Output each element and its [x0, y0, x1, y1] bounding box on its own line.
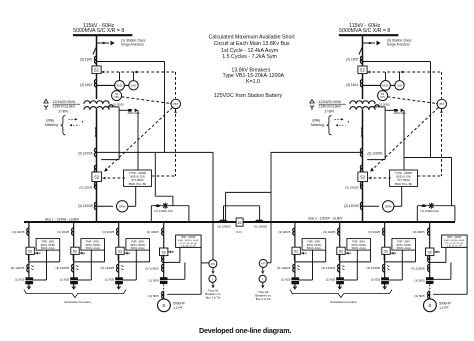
svg-text:50GS, Amps: 50GS, Amps — [397, 247, 412, 250]
motor CT (3) 1200/5 — [428, 264, 430, 268]
svg-text:FPS: FPS — [114, 97, 119, 99]
motor relay box MPR-SR469 — [442, 235, 468, 247]
wire: CT1605 secondary run R — [363, 61, 431, 63]
svg-text:1.2 PF: 1.2 PF — [173, 306, 182, 310]
feeder vertical at x=73.7 — [73, 222, 75, 288]
motor CT below breaker — [162, 255, 164, 259]
transformer wye symbol R — [311, 107, 313, 110]
CT below 52 secondary L — [94, 182, 96, 186]
bus 2 13.8kV — [243, 221, 455, 223]
relay 50/51 L — [115, 81, 125, 91]
wire: feeder relay trip (dashed) — [80, 252, 86, 254]
svg-text:(3) 1605: (3) 1605 — [80, 58, 92, 62]
CT (1) 2000 neutral R — [373, 106, 386, 108]
wire: feeder CT circuit — [29, 261, 60, 263]
wire: 63FP to 86T L (dashed) — [122, 97, 170, 104]
svg-text:50GS, Amps: 50GS, Amps — [131, 247, 146, 250]
svg-text:Bus 2 & Tie: Bus 2 & Tie — [256, 297, 271, 301]
svg-text:1.5 Cycles - 7.2kA Sym: 1.5 Cycles - 7.2kA Sym — [222, 54, 277, 60]
lockout 86B bus2 — [259, 275, 266, 282]
svg-text:52: 52 — [94, 174, 99, 179]
wire: tie CT circuit inner loop — [223, 206, 225, 222]
svg-text:Utility: Utility — [46, 119, 54, 123]
feeder CT (3) 400/5 — [293, 228, 295, 232]
svg-text:(3) 50/5: (3) 50/5 — [414, 294, 425, 298]
feeder CT below breaker — [117, 255, 120, 257]
cable termination — [25, 277, 33, 284]
svg-text:N.O.: N.O. — [236, 230, 242, 234]
wire: bus2 relay rail — [271, 151, 363, 153]
cable termination — [291, 277, 299, 284]
disconnect switch R — [359, 47, 363, 55]
feeder load arrow — [72, 286, 76, 289]
svg-text:Substation Feeders: Substation Feeders — [330, 300, 357, 304]
CT (3) 1605 L — [94, 56, 96, 60]
feeder CT below breaker — [383, 255, 386, 257]
wire: tie CT circuit outer loop — [225, 192, 227, 221]
svg-text:50GS, Amps: 50GS, Amps — [352, 247, 367, 250]
svg-text:87T, BF50: 87T, BF50 — [398, 178, 410, 182]
wire: motor cable (dashed) — [163, 285, 165, 292]
breaker 52 secondary main R — [360, 165, 362, 169]
svg-text:87, 27, 59, 49, 38,: 87, 27, 59, 49, 38, — [179, 243, 197, 245]
svg-text:125VDC from Station Battery: 125VDC from Station Battery — [214, 93, 283, 99]
wire: relay stub 51N R — [399, 72, 401, 81]
cable termination — [70, 277, 78, 284]
CT (3) 1605 R — [360, 56, 362, 60]
svg-text:S: S — [162, 303, 165, 308]
svg-text:Bus 1 - 1200A - 13.8kV: Bus 1 - 1200A - 13.8kV — [45, 217, 80, 221]
svg-text:86T: 86T — [173, 102, 178, 106]
wire: relay stub 51N L — [133, 72, 135, 81]
svg-text:(3) 400/5: (3) 400/5 — [12, 230, 24, 234]
disconnect switch L — [93, 47, 97, 55]
transformer T1 R 12/16/20 MVA — [350, 101, 375, 104]
motor feeder vertical at x=429.7 — [429, 222, 431, 284]
svg-text:(3) 400/5: (3) 400/5 — [278, 230, 290, 234]
wire: feeder CT circuit — [74, 261, 105, 263]
motor M 5000HP — [158, 299, 171, 312]
relay 50/51 R — [381, 81, 391, 91]
svg-text:47N: 47N — [261, 263, 266, 266]
svg-text:(3) 1200/5: (3) 1200/5 — [344, 204, 359, 208]
feeder CT (3) 400/5 — [338, 228, 340, 232]
svg-text:(3) 400/5: (3) 400/5 — [102, 230, 114, 234]
svg-text:TYPE - SR489: TYPE - SR489 — [129, 171, 147, 175]
motor feeder CT (3) 300/5 — [162, 228, 164, 232]
svg-text:50/51: 50/51 — [382, 85, 389, 88]
cable termination — [381, 277, 389, 284]
feeder load arrow — [27, 286, 31, 289]
wire: motor relay trip (dashed) — [435, 251, 441, 253]
arrow — [211, 271, 214, 274]
svg-text:52: 52 — [28, 250, 32, 254]
transformer delta symbol L — [44, 99, 48, 103]
CT (3) 1200/5 main R — [360, 148, 362, 152]
svg-text:(3) 1200/5: (3) 1200/5 — [145, 267, 159, 271]
CT (3) 1200/5 metering R — [360, 202, 362, 206]
CT below 52 secondary R — [360, 182, 362, 186]
svg-text:(3) 1200/5: (3) 1200/5 — [56, 266, 70, 270]
tie breaker 52 N.O. — [236, 218, 243, 226]
transformer wye symbol L — [45, 107, 47, 110]
wire: bus2 trip column vertical — [270, 152, 272, 262]
svg-text:(3) 1200/5: (3) 1200/5 — [78, 204, 93, 208]
svg-text:50GS, Amps: 50GS, Amps — [307, 247, 322, 250]
transformer T1 L 12/16/20 MVA — [84, 101, 109, 104]
svg-text:1.2 PF: 1.2 PF — [439, 306, 448, 310]
wire: 63FP to 86T R (dashed) — [388, 97, 436, 104]
svg-text:50/51: 50/51 — [116, 85, 123, 88]
svg-text:(3) 300/5: (3) 300/5 — [147, 230, 159, 234]
metering CT coils R — [361, 127, 364, 130]
svg-text:5000MVA S/C X/R = 8: 5000MVA S/C X/R = 8 — [339, 28, 390, 34]
svg-text:52: 52 — [118, 250, 122, 254]
lockout 86B bus1 — [209, 275, 216, 282]
svg-text:(1) 50/5: (1) 50/5 — [148, 279, 159, 283]
relay 27N bus1 — [209, 260, 217, 268]
feeder load arrow — [383, 286, 387, 289]
svg-text:FPS: FPS — [380, 97, 385, 99]
lockout relay 86T L — [171, 99, 180, 108]
relay box TYPE-SR489 R — [390, 170, 418, 186]
wire: 115kV utility bus R — [339, 34, 399, 36]
svg-text:Developed one-line diagram.: Developed one-line diagram. — [199, 326, 291, 335]
motor breaker 52 — [426, 248, 434, 256]
svg-text:86T: 86T — [439, 102, 444, 106]
brace substation feeders bus2 — [290, 290, 392, 298]
CT (3) 1604 R — [360, 80, 362, 84]
wire: motor relay trip (dashed) — [169, 251, 175, 253]
surge arrester tap R — [363, 42, 376, 44]
wire: trip circuit 52 primary to 86T L (dashed) — [101, 71, 175, 73]
wire: feeder relay trip (dashed) — [301, 252, 307, 254]
feeder load arrow — [117, 286, 121, 289]
wire: bus1 relay rail — [97, 151, 214, 153]
svg-text:Surge Arrestors: Surge Arrestors — [387, 43, 410, 47]
svg-text:Z=8%: Z=8% — [59, 110, 69, 114]
relay 63FP L — [112, 91, 122, 101]
arrow — [261, 271, 264, 274]
feeder breaker 52 — [71, 247, 79, 254]
breaker 52 secondary main L — [94, 165, 96, 169]
feeder CT (3) 1200/5 — [293, 264, 295, 268]
svg-text:(3) 1200/5: (3) 1200/5 — [367, 266, 381, 270]
feeder relay box TMR-56F1 — [126, 239, 150, 251]
svg-text:(3) 1200/5: (3) 1200/5 — [368, 151, 383, 155]
wire: SR489 trip to 52 secondary R (dashed) — [369, 177, 391, 179]
wire: CT1605 secondary run L — [97, 61, 165, 63]
svg-text:Circuit at Each Main 13.8Kv Bu: Circuit at Each Main 13.8Kv Bus — [214, 41, 290, 47]
feeder CT (3) 400/5 — [27, 228, 29, 232]
feeder relay box TMR-56F1 — [347, 239, 371, 251]
feeder load arrow — [338, 286, 342, 289]
feeder breaker 52 — [292, 247, 300, 254]
bus PT (3) 14400-120 R — [416, 206, 418, 222]
svg-text:(3) 1200/5: (3) 1200/5 — [345, 186, 359, 190]
bus PT (3) 14400-120 L — [150, 206, 152, 222]
svg-text:50/51N, 51N: 50/51N, 51N — [130, 175, 145, 179]
svg-text:BWR, PCL, BK: BWR, PCL, BK — [395, 182, 413, 186]
feeder CT (3) 1200/5 — [72, 264, 74, 268]
meter DPM L — [97, 205, 114, 207]
feeder vertical at x=28.9 — [28, 222, 30, 288]
motor CT (3) 1200/5 — [162, 264, 164, 268]
wire: feeder relay trip (dashed) — [35, 252, 41, 254]
motor feeder vertical at x=163.7 — [163, 222, 165, 284]
svg-text:BWR, PCL, BK: BWR, PCL, BK — [129, 182, 147, 186]
svg-text:(3) 300/5: (3) 300/5 — [413, 230, 425, 234]
svg-text:52: 52 — [237, 221, 241, 225]
svg-text:(1) 825: (1) 825 — [326, 278, 336, 282]
arrow — [211, 285, 214, 288]
feeder relay box TMR-56F1 — [392, 239, 416, 251]
svg-text:50GS, Amps: 50GS, Amps — [41, 247, 56, 250]
wire: feeder CT circuit — [119, 261, 150, 263]
feeder CT (3) 400/5 — [72, 228, 74, 232]
arrow — [261, 286, 264, 289]
svg-text:87, 27, 59, 49, 38,: 87, 27, 59, 49, 38, — [445, 243, 463, 245]
svg-text:(1) 50/5: (1) 50/5 — [414, 279, 425, 283]
svg-text:MPR - SR469: MPR - SR469 — [447, 237, 462, 239]
feeder breaker 52 — [116, 247, 124, 254]
neutral grounding resistor L — [119, 109, 127, 111]
svg-text:51N: 51N — [397, 85, 402, 88]
wire: feeder CT circuit — [295, 261, 326, 263]
svg-text:52: 52 — [73, 250, 77, 254]
feeder vertical at x=118.7 — [118, 222, 120, 288]
svg-text:(1) 2000: (1) 2000 — [379, 102, 391, 106]
svg-text:115KV/13.8kV: 115KV/13.8kV — [53, 105, 76, 109]
feeder breaker 52 — [382, 247, 390, 254]
feeder CT (3) 400/5 — [117, 228, 119, 232]
utility metering L — [61, 116, 66, 135]
wire: relay trip to 86T R (dashed) — [441, 109, 443, 176]
CT (3) 1604 L — [94, 80, 96, 84]
svg-text:(3) 1200/5: (3) 1200/5 — [277, 266, 291, 270]
svg-text:(3) 400/5: (3) 400/5 — [57, 230, 69, 234]
svg-text:52: 52 — [384, 250, 388, 254]
svg-text:5000MVA S/C X/R = 8: 5000MVA S/C X/R = 8 — [73, 28, 124, 34]
svg-text:(3) 1604: (3) 1604 — [346, 83, 358, 87]
motor relay box MPR-SR469 — [176, 235, 202, 247]
meter DPM R — [363, 205, 380, 207]
wire: relay stub 50/51 L — [119, 72, 121, 81]
svg-text:50GS, Amps: 50GS, Amps — [86, 247, 101, 250]
wire: 86T trip to 52 secondary L (dashed diagonal) — [105, 108, 172, 171]
svg-text:52: 52 — [294, 250, 298, 254]
wire: 115kV utility bus L — [73, 34, 132, 36]
cable termination — [115, 277, 123, 284]
svg-text:(3) 14400-120: (3) 14400-120 — [420, 209, 439, 213]
svg-text:115KV/13.8kV: 115KV/13.8kV — [319, 105, 342, 109]
svg-text:MPR - SR469: MPR - SR469 — [181, 237, 196, 239]
motor CT (3) 50/5 — [163, 292, 165, 299]
svg-text:Surge Arrestors: Surge Arrestors — [121, 43, 144, 47]
motor CT (3) 50/5 — [429, 292, 431, 299]
wire: CT1604 to relays R — [363, 84, 395, 86]
transformer delta symbol R — [310, 99, 314, 103]
feeder CT (3) 1200/5 — [117, 264, 119, 268]
breaker 52 primary L — [92, 66, 101, 74]
wire: SR489 trip to 52 secondary L (dashed) — [103, 177, 125, 179]
svg-text:Bus 1 & Tie: Bus 1 & Tie — [206, 295, 221, 299]
CT (3) 1200/5 metering L — [94, 202, 96, 206]
relay 51N L — [129, 81, 138, 90]
feeder relay box TMR-56F1 — [36, 239, 60, 251]
svg-text:Metering: Metering — [45, 123, 58, 127]
feeder relay box TMR-56F1 — [302, 239, 326, 251]
svg-text:52: 52 — [428, 251, 432, 255]
CT (3) 1200/5 main L — [94, 148, 96, 152]
svg-text:52: 52 — [162, 251, 166, 255]
wire: feeder relay trip (dashed) — [125, 252, 131, 254]
svg-text:(3) 1604: (3) 1604 — [80, 83, 92, 87]
svg-text:(3) 1200/5: (3) 1200/5 — [254, 225, 268, 229]
svg-text:50/51N, 51N: 50/51N, 51N — [396, 175, 411, 179]
wire: feeder relay trip (dashed) — [346, 252, 352, 254]
feeder CT (3) 1200/5 — [338, 264, 340, 268]
svg-text:4, A, 38, htr, PF: 4, A, 38, htr, PF — [181, 245, 197, 248]
svg-text:(3) 1200/5: (3) 1200/5 — [11, 266, 25, 270]
svg-text:(1) 825: (1) 825 — [15, 278, 25, 282]
svg-text:52: 52 — [360, 174, 365, 179]
tie CT right (3) 1200/5 — [256, 220, 260, 222]
motor CT below breaker — [428, 255, 430, 259]
wire: motor CT circuits — [164, 261, 180, 263]
feeder load arrow — [293, 286, 297, 289]
feeder CT (3) 1200/5 — [27, 264, 29, 268]
tie CT left (3) 1200/5 — [220, 220, 224, 222]
feeder vertical at x=339.7 — [339, 222, 341, 288]
brace substation feeders bus1 — [24, 290, 126, 298]
svg-text:(3) 50/5: (3) 50/5 — [148, 294, 159, 298]
relay 51N R — [395, 81, 404, 90]
svg-text:(1) 825: (1) 825 — [60, 278, 70, 282]
relay 63FP R — [378, 91, 388, 101]
feeder relay box TMR-56F1 — [81, 239, 105, 251]
wire: feeder CT circuit — [385, 261, 416, 263]
wire: feeder CT circuit — [340, 261, 371, 263]
wire: incoming feeder R main vertical — [362, 35, 364, 99]
svg-text:50/51, 50/51G, 46,BL: 50/51, 50/51G, 46,BL — [178, 240, 200, 242]
svg-text:Bus 2 - 1200A - 13.8kV: Bus 2 - 1200A - 13.8kV — [309, 216, 344, 220]
bus 1 13.8kV — [24, 221, 236, 223]
wire: 86T trip to 52 secondary R (dashed diagonal) — [371, 108, 438, 171]
wire: incoming feeder L main vertical — [96, 35, 98, 99]
utility metering R — [327, 116, 332, 135]
svg-text:Utility: Utility — [312, 119, 320, 123]
svg-text:K=1.0: K=1.0 — [246, 79, 260, 85]
metering CT coils L — [95, 127, 98, 130]
wire: relay trip to 86T L (dashed) — [175, 109, 177, 176]
svg-text:(3) 1200/5: (3) 1200/5 — [411, 267, 425, 271]
svg-text:(3) 400/5: (3) 400/5 — [368, 230, 380, 234]
svg-text:(1) 2000: (1) 2000 — [113, 102, 125, 106]
svg-text:4, A, 38, htr, PF: 4, A, 38, htr, PF — [447, 245, 463, 248]
svg-text:(3) 1200/5: (3) 1200/5 — [101, 266, 115, 270]
motor cable termination — [160, 277, 168, 284]
neutral grounding resistor R — [385, 109, 393, 111]
svg-text:(1) 825: (1) 825 — [281, 278, 291, 282]
feeder CT (3) 1200/5 — [383, 264, 385, 268]
breaker 52 primary R — [358, 66, 367, 74]
svg-text:Metering: Metering — [311, 123, 324, 127]
feeder CT below breaker — [338, 255, 341, 257]
svg-text:(3) 400/5: (3) 400/5 — [323, 230, 335, 234]
CT (1) 2000 neutral L — [107, 106, 120, 108]
feeder vertical at x=294.9 — [294, 222, 296, 288]
wire: feeder relay trip (dashed) — [391, 252, 397, 254]
svg-text:51N: 51N — [131, 85, 136, 88]
svg-text:(3) 1200/5: (3) 1200/5 — [78, 151, 93, 155]
feeder CT below breaker — [27, 255, 30, 257]
feeder CT below breaker — [293, 255, 296, 257]
svg-text:52: 52 — [94, 67, 99, 72]
svg-text:87T, BF50: 87T, BF50 — [132, 178, 144, 182]
svg-text:52: 52 — [339, 250, 343, 254]
feeder breaker 52 — [26, 247, 34, 254]
svg-text:52: 52 — [360, 67, 365, 72]
svg-text:S: S — [428, 303, 431, 308]
svg-text:(3) 1200/5: (3) 1200/5 — [322, 266, 336, 270]
wire: motor cable (dashed) — [429, 285, 431, 292]
svg-text:DPM: DPM — [385, 205, 392, 209]
svg-text:Calculated Maximum Available S: Calculated Maximum Available Short — [209, 34, 296, 40]
wire: bus1 trip column vertical — [212, 152, 214, 259]
motor breaker 52 — [160, 248, 168, 256]
svg-text:DPM: DPM — [119, 205, 126, 209]
lockout relay 86T R — [437, 99, 446, 108]
svg-text:(1) 825: (1) 825 — [105, 278, 115, 282]
motor M 5000HP — [424, 299, 437, 312]
feeder CT (3) 400/5 — [383, 228, 385, 232]
svg-text:(1) 825: (1) 825 — [371, 278, 381, 282]
wire: motor CT circuits — [430, 261, 446, 263]
wire: relay stub 50/51 R — [385, 72, 387, 81]
wire: trip circuit 52 primary to 86T R (dashed) — [367, 71, 441, 73]
svg-text:47N: 47N — [211, 263, 216, 266]
relay box TYPE-SR489 L — [124, 170, 152, 186]
svg-text:Substation Feeders: Substation Feeders — [64, 300, 91, 304]
relay 27N bus2 — [259, 259, 267, 267]
surge arrester tap L — [97, 42, 110, 44]
svg-text:(3) 1200/5: (3) 1200/5 — [79, 186, 93, 190]
wire: CT1604 to relays L — [97, 84, 129, 86]
svg-text:(3) 1605: (3) 1605 — [346, 58, 358, 62]
wire: motor relay to 27N bus1 — [201, 262, 209, 264]
svg-text:50/51, 50/51G, 46,BL: 50/51, 50/51G, 46,BL — [444, 240, 466, 242]
motor feeder CT (3) 300/5 — [428, 228, 430, 232]
motor cable termination — [426, 277, 434, 284]
svg-text:(3) 1200/5: (3) 1200/5 — [217, 224, 231, 228]
cable termination — [336, 277, 344, 284]
feeder vertical at x=384.7 — [384, 222, 386, 288]
svg-text:Z=8%: Z=8% — [325, 110, 335, 114]
svg-text:(3) 14400-120: (3) 14400-120 — [154, 209, 173, 213]
feeder CT below breaker — [72, 255, 75, 257]
feeder breaker 52 — [337, 247, 345, 254]
svg-text:TYPE - SR489: TYPE - SR489 — [395, 171, 413, 175]
